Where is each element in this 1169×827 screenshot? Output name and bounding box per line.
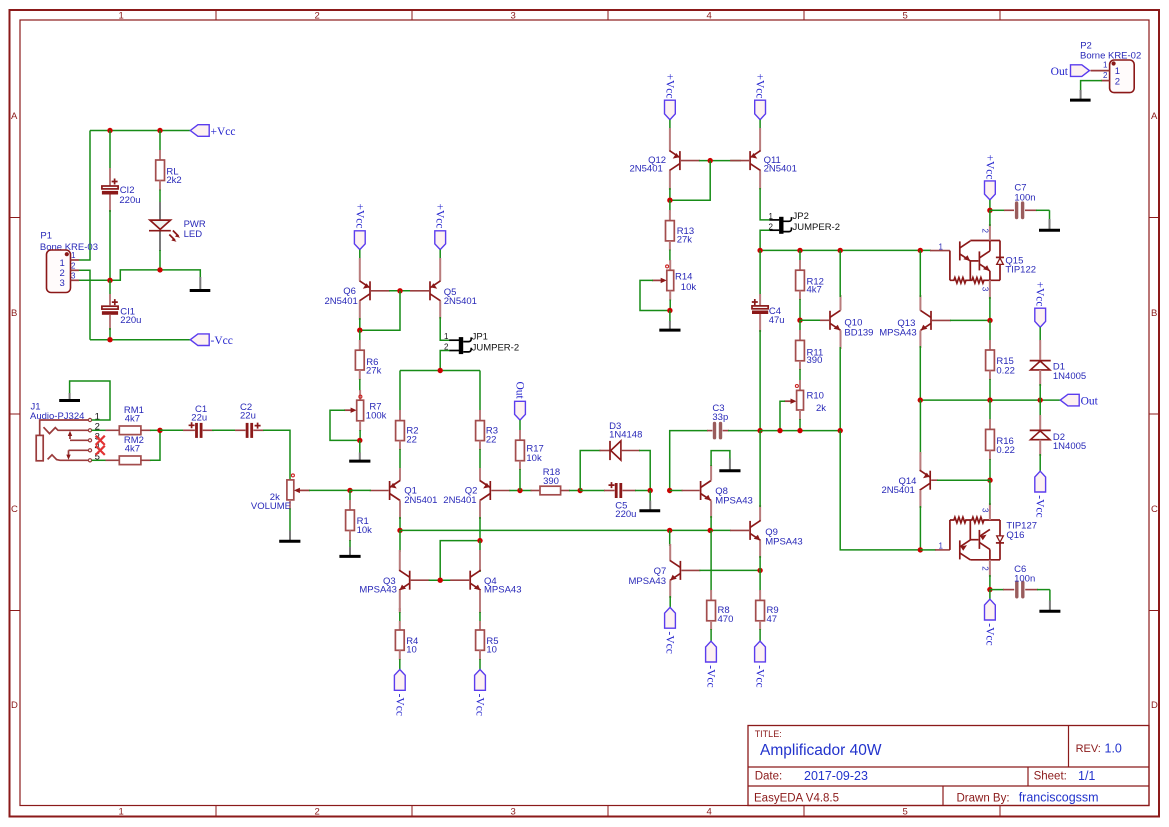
svg-text:1N4005: 1N4005: [1053, 441, 1086, 452]
svg-text:47u: 47u: [769, 315, 785, 326]
transistor Q9 MPSA43: [730, 505, 803, 558]
wire R18 to D3/C5 node: [569, 490, 580, 492]
junction: [107, 337, 112, 342]
svg-text:27k: 27k: [677, 235, 693, 246]
svg-text:Amplificador 40W: Amplificador 40W: [760, 742, 882, 759]
wire volume node to Q1 base: [350, 489, 371, 491]
svg-text:JUMPER-2: JUMPER-2: [793, 222, 841, 233]
connector P2 Borne KRE-02: [1080, 40, 1141, 92]
svg-text:2: 2: [315, 807, 320, 818]
wire Q13 emitter to Out rail: [919, 346, 921, 400]
svg-text:MPSA43: MPSA43: [629, 576, 667, 587]
junction: [477, 538, 482, 543]
svg-text:4k7: 4k7: [125, 414, 140, 425]
potentiometer R10 2k: [784, 380, 826, 431]
resistor R8: [707, 530, 734, 641]
port -Vcc (below Q16 pin2): [983, 590, 995, 646]
svg-text:MPSA43: MPSA43: [484, 584, 522, 595]
resistor R16: [986, 400, 1015, 480]
transistor Q10 BD139: [820, 250, 873, 430]
capacitor C7: [990, 183, 1050, 218]
jumper JP1 JUMPER-2: [444, 331, 519, 354]
wire compensation rail: [670, 431, 708, 491]
svg-text:100n: 100n: [1014, 573, 1035, 584]
transistor Q16 TIP127 (darlington): [920, 480, 1037, 589]
svg-text:1: 1: [119, 807, 124, 818]
svg-text:0.22: 0.22: [996, 365, 1015, 376]
capacitor C5: [580, 482, 650, 520]
wire R14 bottom: [669, 300, 671, 312]
port +Vcc (above D1): [1034, 282, 1046, 328]
resistor RL: [156, 131, 182, 204]
wire R7 wiper loop to bottom: [330, 410, 360, 440]
transistor Q12 2N5401: [630, 128, 700, 190]
junction: [397, 528, 402, 533]
svg-text:3: 3: [980, 287, 989, 292]
transistor Q13 MPSA43: [879, 295, 951, 348]
wire Q13 base to bias node: [950, 319, 990, 321]
svg-text:2k2: 2k2: [166, 175, 181, 186]
svg-text:+Vcc: +Vcc: [663, 74, 675, 99]
svg-text:33p: 33p: [712, 412, 728, 423]
capacitor C1: [183, 404, 214, 438]
svg-text:C: C: [11, 504, 18, 515]
resistor R12: [796, 250, 824, 320]
svg-text:+Vcc: +Vcc: [434, 204, 446, 229]
resistor R2: [396, 371, 419, 451]
svg-text:1: 1: [938, 542, 943, 551]
svg-text:JP2: JP2: [793, 211, 809, 222]
wire Q1 collector down: [399, 517, 401, 530]
svg-text:10k: 10k: [681, 282, 697, 293]
svg-text:+Vcc: +Vcc: [1034, 282, 1046, 307]
svg-text:D: D: [1151, 700, 1158, 711]
svg-text:LED: LED: [184, 229, 203, 240]
wire pot wiper to Q1 base node: [309, 489, 350, 491]
junction: [438, 368, 443, 373]
wire +Vcc to Q5 emitter: [439, 250, 441, 260]
junction: [987, 587, 992, 592]
svg-text:2: 2: [980, 229, 989, 234]
svg-text:R10: R10: [807, 391, 824, 402]
ground (volume): [279, 531, 300, 542]
resistor R9: [756, 570, 779, 641]
transistor Q6 2N5401: [325, 258, 391, 320]
resistor R5: [476, 608, 499, 670]
resistor R15: [986, 320, 1015, 400]
svg-text:1N4148: 1N4148: [609, 430, 642, 441]
svg-text:Borne KRE-02: Borne KRE-02: [1080, 50, 1141, 61]
port Out (right side): [1060, 394, 1098, 407]
svg-text:4k7: 4k7: [125, 444, 140, 455]
svg-text:-Vcc: -Vcc: [1034, 495, 1046, 517]
svg-text:22u: 22u: [191, 412, 207, 423]
svg-text:2: 2: [980, 566, 989, 571]
svg-text:1: 1: [444, 332, 449, 341]
wire Q2 base to R17/R18 node: [509, 490, 531, 492]
svg-text:220u: 220u: [119, 195, 140, 206]
junction: [667, 528, 672, 533]
port +Vcc (above Q6): [353, 204, 365, 250]
wire Q6 collector diode-connect loop: [360, 291, 400, 330]
svg-text:-Vcc: -Vcc: [983, 623, 995, 645]
svg-text:franciscogssm: franciscogssm: [1019, 791, 1099, 805]
svg-text:1: 1: [119, 11, 124, 22]
wire J1 pin2 to RM1: [92, 429, 106, 431]
wire P1 pin1 to +Vcc rail: [79, 131, 90, 261]
port -Vcc (below Q7): [664, 607, 676, 653]
junction: [987, 397, 992, 402]
svg-text:27k: 27k: [366, 365, 382, 376]
svg-text:10k: 10k: [526, 453, 542, 464]
wire R12 node to Q10 base: [800, 319, 821, 321]
junction: [708, 528, 713, 533]
junction: [347, 488, 352, 493]
wire +Vcc to Q6 emitter: [359, 250, 361, 260]
svg-text:220u: 220u: [615, 509, 636, 520]
connector J1 Audio-PJ324: [30, 401, 100, 462]
junction: [918, 248, 923, 253]
transistor Q11 2N5401: [730, 128, 797, 189]
wire Q9 collector up to C4 node: [759, 431, 761, 507]
transistor Q1 2N5401: [370, 449, 438, 519]
port -Vcc (below R9): [754, 641, 766, 687]
junction: [517, 488, 522, 493]
svg-text:3: 3: [511, 11, 516, 22]
junction: [157, 128, 162, 133]
svg-text:4k7: 4k7: [807, 285, 822, 296]
transistor Q7 MPSA43: [629, 544, 701, 598]
svg-text:B: B: [1151, 308, 1157, 319]
svg-text:MPSA43: MPSA43: [879, 327, 917, 338]
svg-text:5: 5: [903, 11, 908, 22]
capacitor C6: [990, 564, 1050, 597]
wire JP2 pin2 down to VAS rail: [760, 230, 770, 250]
svg-text:+Vcc: +Vcc: [353, 204, 365, 229]
wire Q8 emitter to tail rail: [710, 516, 712, 530]
ground (R14): [659, 311, 680, 331]
port +Vcc (above Q11): [754, 74, 766, 120]
wire Q8 base stub: [670, 490, 683, 492]
no-connect X on J1 pin3: [96, 436, 105, 445]
transistor Q4 MPSA43: [450, 550, 521, 611]
svg-text:Drawn By:: Drawn By:: [957, 792, 1010, 804]
svg-text:Out: Out: [513, 382, 525, 400]
wire Out rail: [920, 399, 1060, 401]
wire RM1 to node: [150, 429, 160, 431]
wire pot bottom to ground: [289, 509, 291, 532]
wire +Vcc rail top-left: [90, 130, 190, 132]
svg-text:Out: Out: [1051, 66, 1069, 78]
transistor Q14 2N5401: [882, 400, 939, 550]
ground (P2): [1070, 90, 1091, 100]
transistor Q8 MPSA43: [682, 465, 753, 518]
wire C2 to volume pot: [263, 430, 290, 480]
junction: [918, 397, 923, 402]
wire VAS top rail: [760, 249, 931, 251]
svg-text:470: 470: [718, 614, 734, 625]
junction: [918, 547, 923, 552]
svg-text:MPSA43: MPSA43: [765, 537, 803, 548]
svg-text:4: 4: [707, 807, 712, 818]
potentiometer VOLUME 2k: [251, 474, 310, 512]
wire C1 to C2: [212, 429, 236, 431]
wire tail long rail to Q9 base: [400, 529, 731, 531]
svg-text:0.22: 0.22: [996, 445, 1015, 456]
svg-text:22: 22: [486, 435, 497, 446]
resistor R1: [346, 490, 373, 548]
transistor Q5 2N5401: [410, 258, 477, 319]
svg-text:2N5401: 2N5401: [325, 296, 358, 307]
diode D1 1N4005: [1030, 327, 1086, 400]
svg-text:A: A: [11, 111, 18, 122]
wire J1 pin1 to ground: [70, 381, 110, 420]
svg-text:2N5401: 2N5401: [882, 485, 915, 496]
wire +Vcc to Q11 emitter: [759, 120, 761, 130]
svg-text:10: 10: [486, 645, 497, 656]
svg-text:-Vcc: -Vcc: [393, 694, 405, 716]
svg-text:22: 22: [406, 435, 417, 446]
resistor R18: [531, 467, 571, 495]
resistor R6: [355, 330, 381, 391]
svg-text:3: 3: [511, 807, 516, 818]
svg-text:390: 390: [543, 476, 559, 487]
svg-text:+Vcc: +Vcc: [211, 126, 236, 138]
svg-text:+Vcc: +Vcc: [983, 155, 995, 180]
wire -Vcc rail bottom: [90, 339, 190, 341]
svg-text:10: 10: [406, 645, 417, 656]
wire JP1 pin2 down to tail node: [440, 351, 449, 371]
wire R14 wiper loop: [640, 280, 670, 310]
svg-text:JUMPER-2: JUMPER-2: [472, 342, 520, 353]
wire P1 pin2 to -Vcc rail: [79, 270, 90, 339]
svg-text:1: 1: [71, 251, 76, 260]
junction: [667, 308, 672, 313]
svg-text:2k: 2k: [816, 403, 826, 414]
wire Q7 base to Q9 emitter node: [699, 569, 760, 571]
wire Q9 emitter to node: [759, 556, 761, 570]
svg-text:2: 2: [1115, 76, 1120, 87]
svg-text:MPSA43: MPSA43: [359, 584, 397, 595]
resistor RM2: [106, 435, 152, 464]
wire Q3 base to Q4 base: [429, 579, 452, 581]
svg-text:-Vcc: -Vcc: [754, 665, 766, 687]
potentiometer R7 100k: [344, 390, 387, 431]
svg-text:-Vcc: -Vcc: [664, 632, 676, 654]
port +Vcc (left-pointing flag): [190, 125, 235, 138]
transistor Q15 TIP122 (darlington): [930, 210, 1036, 320]
wire node to C1: [160, 429, 184, 431]
wire Q2 collector to Q4 collector: [479, 541, 481, 572]
wire Q5 collector to JP1 pin1: [440, 317, 449, 340]
wire Q8 collector to ground: [711, 451, 730, 466]
junction: [357, 438, 362, 443]
junction: [667, 488, 672, 493]
wire J1 pin5 to RM2: [92, 459, 106, 461]
junction: [648, 488, 653, 493]
port +Vcc (above Q15): [983, 155, 995, 200]
svg-text:1: 1: [938, 242, 943, 251]
ground (R1): [339, 547, 360, 556]
wire Q6 base to Q5 base: [389, 290, 411, 292]
svg-text:4: 4: [707, 11, 712, 22]
junction: [667, 198, 672, 203]
ground (C5/D3): [639, 491, 660, 511]
wire D3 to right node: [639, 451, 650, 491]
wire Q2 collector jog down: [440, 517, 480, 580]
junction: [708, 158, 713, 163]
potentiometer R14 10k: [652, 260, 696, 301]
junction: [107, 128, 112, 133]
svg-text:JP1: JP1: [472, 331, 488, 342]
svg-text:Sheet:: Sheet:: [1034, 771, 1067, 783]
svg-text:3: 3: [71, 272, 76, 281]
svg-text:3: 3: [980, 508, 989, 513]
port -Vcc (left-pointing flag): [190, 334, 233, 347]
wire tail rail: [400, 370, 480, 372]
svg-text:Q16: Q16: [1006, 530, 1024, 541]
port Out (to P2 pin1): [1051, 65, 1090, 78]
junction: [157, 267, 162, 272]
svg-text:1: 1: [1103, 61, 1108, 70]
junction: [987, 318, 992, 323]
port -Vcc (below R8): [705, 641, 717, 687]
svg-text:2N5401: 2N5401: [764, 164, 797, 175]
junction: [797, 318, 802, 323]
wire Q11 collector to JP2 pin1: [760, 188, 770, 220]
title block: [748, 726, 1149, 806]
svg-text:R14: R14: [675, 271, 692, 282]
junction: [757, 428, 762, 433]
svg-text:1.0: 1.0: [1105, 742, 1122, 756]
junction: [838, 428, 843, 433]
connector P1 Bone KRE-03: [40, 230, 98, 292]
port Out (above R17): [513, 382, 525, 421]
junction: [157, 428, 162, 433]
ground (R7): [349, 440, 370, 461]
junction: [797, 248, 802, 253]
svg-text:5: 5: [903, 807, 908, 818]
svg-text:MPSA43: MPSA43: [715, 496, 753, 507]
wire Q12 collector diode loop: [670, 161, 710, 201]
wire +Vcc to C7/Q15 node: [989, 200, 991, 210]
resistor R17: [516, 420, 544, 490]
ground (C6): [1039, 590, 1060, 612]
diode D3 1N4148: [600, 421, 643, 460]
wire +Vcc to Q12 emitter: [669, 120, 671, 130]
wire Q7 collector: [669, 530, 671, 546]
svg-text:220u: 220u: [120, 315, 141, 326]
jumper JP2 JUMPER-2: [768, 211, 840, 234]
svg-text:P1: P1: [40, 230, 52, 241]
resistor R4: [395, 608, 418, 670]
junction: [797, 428, 802, 433]
transistor Q2 2N5401: [443, 449, 510, 519]
svg-text:10k: 10k: [357, 525, 373, 536]
svg-text:-Vcc: -Vcc: [705, 665, 717, 687]
LED PWR: [149, 202, 206, 270]
port +Vcc (above Q5): [434, 204, 446, 250]
diode D2 1N4005: [1030, 400, 1086, 471]
wire Q13 collector to VAS rail: [919, 250, 921, 297]
svg-text:+Vcc: +Vcc: [754, 74, 766, 99]
svg-text:2017-09-23: 2017-09-23: [804, 769, 868, 783]
svg-text:100k: 100k: [366, 410, 387, 421]
resistor R3: [476, 371, 498, 451]
no-connect X on J1 pin4: [96, 446, 105, 455]
wire Q10 emitter down to Q16 pin1: [840, 431, 920, 550]
wire C3 node to R10: [760, 430, 840, 432]
svg-text:Out: Out: [1081, 395, 1099, 407]
svg-text:2: 2: [1103, 71, 1108, 80]
wire RM2 up to node: [150, 430, 160, 460]
port -Vcc (below R4): [393, 670, 405, 716]
resistor R13: [666, 200, 695, 261]
svg-text:1N4005: 1N4005: [1053, 371, 1086, 382]
svg-text:VOLUME: VOLUME: [251, 501, 291, 512]
port -Vcc (below R5): [474, 670, 486, 716]
junction: [107, 278, 112, 283]
svg-text:-Vcc: -Vcc: [211, 335, 233, 347]
port +Vcc (above Q12): [663, 74, 675, 120]
svg-text:REV:: REV:: [1076, 743, 1101, 755]
wire Q14 base to R16 node: [937, 479, 990, 481]
svg-text:C: C: [1151, 504, 1158, 515]
svg-text:B: B: [11, 308, 17, 319]
capacitor C3: [707, 403, 760, 438]
svg-text:-Vcc: -Vcc: [474, 694, 486, 716]
junction: [838, 248, 843, 253]
capacitor C4: [752, 250, 785, 430]
svg-text:Date:: Date:: [755, 771, 783, 783]
wire Q7 emitter to -Vcc: [669, 596, 671, 607]
wire Q12 base to Q11 base: [699, 160, 741, 162]
junction: [397, 288, 402, 293]
wire P2 pin2 to ground: [1081, 81, 1102, 91]
svg-text:100n: 100n: [1014, 193, 1035, 204]
svg-text:47: 47: [767, 614, 778, 625]
junction: [578, 488, 583, 493]
capacitor C2: [235, 402, 264, 438]
junction: [1038, 397, 1043, 402]
ground (C7): [1039, 210, 1060, 230]
junction: [987, 478, 992, 483]
svg-text:22u: 22u: [240, 410, 256, 421]
transistor Q3 MPSA43: [359, 530, 429, 611]
junction: [987, 208, 992, 213]
junction: [757, 248, 762, 253]
junction: [357, 328, 362, 333]
svg-text:390: 390: [807, 355, 823, 366]
wire node up to D3: [580, 451, 600, 491]
ground (Q8 collector): [719, 459, 740, 471]
svg-text:1: 1: [768, 212, 773, 221]
junction: [757, 568, 762, 573]
ground (J1): [59, 393, 80, 401]
svg-text:EasyEDA V4.8.5: EasyEDA V4.8.5: [754, 792, 839, 804]
svg-text:2N5401: 2N5401: [444, 296, 477, 307]
svg-text:TITLE:: TITLE:: [755, 729, 782, 739]
svg-text:3: 3: [60, 278, 65, 289]
wire P1 pin3 to ground net: [79, 270, 200, 280]
svg-text:2N5401: 2N5401: [404, 495, 437, 506]
svg-text:TIP122: TIP122: [1005, 264, 1036, 275]
ground (power section): [190, 277, 211, 291]
svg-text:BD139: BD139: [844, 327, 873, 338]
svg-text:1/1: 1/1: [1078, 769, 1095, 783]
svg-text:D: D: [11, 700, 18, 711]
wire R7 bottom: [359, 430, 361, 441]
